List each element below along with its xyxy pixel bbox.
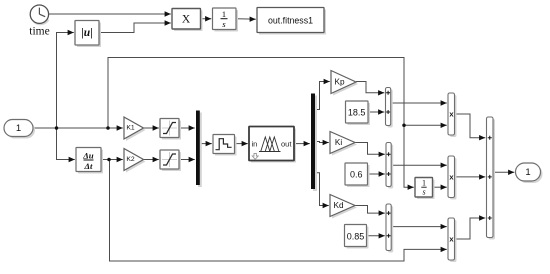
wire constant 0.85 to sum D (367, 233, 385, 238)
demux (311, 94, 317, 192)
constant 0.6 (345, 163, 370, 187)
node branch2 (106, 126, 110, 130)
wire integrator to out.fitness1 (236, 17, 256, 22)
outport 1 (516, 163, 543, 183)
wire saturation1 to mux (179, 125, 195, 130)
fuzzy logic controller (249, 127, 296, 163)
sum block P (386, 88, 393, 128)
wire integrator2 to product I (432, 185, 447, 190)
sum block D (386, 204, 393, 253)
gain Ki (330, 132, 357, 156)
wire sum D to product D (391, 224, 447, 229)
wire product D to final sum (455, 215, 486, 239)
wire quantizer to fuzzy (235, 141, 248, 146)
sum block I (386, 143, 393, 189)
wire K1 to saturation1 (144, 125, 159, 130)
svg-text:X: X (182, 13, 191, 25)
svg-text:Kp: Kp (334, 78, 344, 87)
svg-text:0.85: 0.85 (347, 231, 365, 241)
gain Kd (330, 195, 357, 219)
wire constant 18.5 to sum P (368, 109, 384, 114)
svg-text:s: s (222, 19, 226, 29)
wire constant 0.6 to sum I (368, 171, 385, 176)
node error tap (402, 124, 406, 128)
svg-text:1: 1 (16, 123, 21, 134)
wire error to product P (404, 123, 447, 128)
node branch3 (107, 158, 111, 162)
svg-text:K1: K1 (126, 125, 135, 132)
svg-text:time: time (29, 26, 49, 38)
svg-text:Δu: Δu (82, 150, 94, 160)
product block P-term (448, 93, 457, 137)
wire Ki to sum I (355, 143, 385, 158)
wire product P to final sum (455, 114, 486, 140)
svg-text:0.6: 0.6 (350, 170, 363, 180)
integrator block 1/s (I-term) (415, 178, 435, 200)
svg-text:K2: K2 (126, 156, 135, 163)
integrator block 1/s (213, 8, 239, 32)
mux (196, 111, 202, 188)
wire sum P to product P (391, 100, 447, 105)
svg-text:1: 1 (222, 9, 226, 19)
wire demux to Ki (315, 140, 329, 145)
wire demux to Kd (315, 173, 329, 208)
outport block out.fitness1 (257, 8, 326, 35)
wire clock to product (49, 11, 171, 16)
quantizer block (213, 135, 237, 156)
clock block (30, 5, 48, 24)
saturation block 1 (160, 119, 181, 140)
svg-text:|u|: |u| (81, 27, 92, 39)
node branch1 (55, 126, 59, 130)
wire product I to final sum (455, 174, 486, 179)
abs block |u| (75, 21, 101, 48)
svg-text:18.5: 18.5 (348, 108, 366, 118)
product block D-term (448, 218, 457, 262)
wire branch up to abs (57, 30, 74, 128)
inport 1 (4, 120, 35, 139)
wire derivative to product D (110, 160, 447, 262)
svg-text:s: s (422, 188, 425, 197)
wire saturation2 to mux (179, 157, 195, 162)
constant 0.85 (345, 225, 369, 249)
wire fuzzy to demux (294, 141, 310, 146)
wire branch down to derivative (57, 128, 75, 162)
wire Kd to sum D (355, 206, 385, 216)
gain K1 (124, 117, 146, 141)
svg-text:Ki: Ki (335, 138, 342, 147)
wire error feedback to integrator2 (108, 58, 414, 190)
gain K2 (124, 149, 146, 173)
product block X (172, 9, 203, 32)
svg-text:in: in (252, 140, 258, 149)
constant 18.5 (346, 101, 371, 125)
wire product to integrator (201, 16, 212, 21)
gain Kp (331, 71, 358, 96)
svg-text:out: out (281, 140, 292, 149)
wire K2 to saturation2 (144, 157, 159, 162)
wire sum I to product I (391, 163, 447, 168)
wire final sum to outport (493, 170, 515, 175)
svg-text:1: 1 (525, 167, 530, 178)
wire demux to Kp (315, 79, 330, 110)
saturation block 2 (160, 150, 181, 171)
product block I-term (448, 156, 457, 200)
svg-text:1: 1 (422, 179, 426, 188)
wire derivative to K2 (101, 157, 123, 162)
svg-text:Δt: Δt (84, 161, 94, 171)
svg-text:out.fitness1: out.fitness1 (268, 16, 313, 26)
wire inport to K1 (33, 125, 123, 130)
derivative block du/dt (76, 148, 103, 174)
svg-text:Kd: Kd (333, 201, 343, 210)
wire abs to product (99, 20, 171, 32)
final sum block (487, 117, 496, 240)
wire mux to quantizer (200, 141, 212, 146)
wire Kp to sum P (356, 82, 384, 96)
